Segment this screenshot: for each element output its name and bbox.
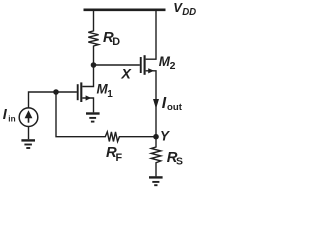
svg-text:D: D (112, 36, 120, 48)
svg-text:X: X (120, 67, 132, 83)
svg-text:F: F (116, 152, 123, 164)
svg-text:in: in (8, 114, 15, 123)
svg-text:DD: DD (182, 7, 196, 18)
svg-text:2: 2 (170, 60, 176, 72)
svg-text:I: I (3, 107, 8, 123)
svg-text:1: 1 (107, 89, 113, 100)
svg-text:out: out (167, 102, 183, 113)
svg-text:S: S (176, 157, 183, 168)
svg-text:Y: Y (160, 128, 170, 143)
